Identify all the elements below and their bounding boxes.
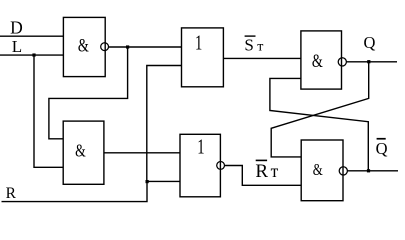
wire L input [0,54,63,56]
node G1 output junction [126,45,129,48]
inversion bubble of G6 [339,167,347,175]
wire Q feedback to G6 input1 [271,62,369,157]
wire D input [0,35,63,37]
and-gate G2 box [63,121,104,184]
wire R net to G4 input2 [147,180,180,182]
wire G5 output Q [346,61,397,63]
svg-text:&: & [78,34,89,55]
overbar of Qbar [377,138,386,140]
wire G2 output to G4 input1 [104,152,180,154]
node L junction [32,53,35,56]
svg-text:Q: Q [376,139,388,158]
inversion bubble of G1 [101,43,109,51]
overbar of R [256,160,267,162]
nand-gate G5 box [301,31,342,89]
svg-text:т: т [257,39,263,54]
node Q junction [367,60,370,63]
wire R net vertical to G3 input2 [147,66,182,182]
inversion bubble of G5 [338,58,346,66]
or-gate G3 box [182,28,224,87]
nand-gate G6 box [301,140,343,201]
svg-text:R: R [6,185,17,202]
wire G6 output Qbar [347,170,398,172]
node R net junction [146,180,149,183]
svg-text:S: S [244,35,253,54]
svg-text:т: т [271,161,279,181]
overbar of S [245,35,256,36]
svg-text:Q: Q [364,33,376,52]
wire R input [2,182,148,202]
svg-text:D: D [10,17,23,37]
or-gate G4 box [180,134,220,197]
svg-text:L: L [12,37,22,56]
svg-text:&: & [75,142,86,161]
svg-text:R: R [255,161,268,182]
svg-text:1: 1 [195,31,202,54]
wire L branch to G2 lower input [34,55,63,167]
wire feedback from G1 output to G2 input1 [49,47,128,139]
and-gate G1 box [63,17,105,76]
wire S-bar-T : G3 output to G5 input1 [223,57,301,59]
svg-text:&: & [313,162,323,180]
wire G1 output to G3 input1 [108,46,181,48]
wire R-bar-T : G4 output to G6 input2 [224,166,301,186]
inversion bubble of G4 [217,162,225,170]
svg-text:&: & [312,50,323,71]
svg-text:1: 1 [197,135,204,158]
node Qbar junction [367,169,370,172]
wire Qbar feedback to G5 input2 [270,78,368,170]
